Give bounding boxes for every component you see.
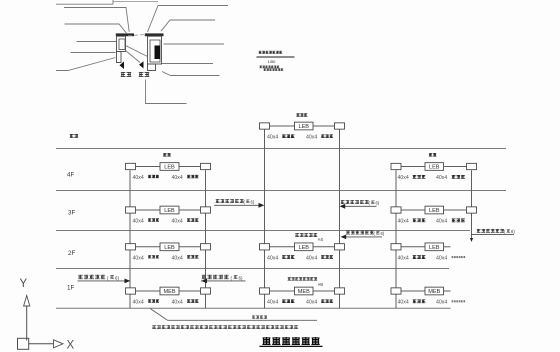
leader line 3F far-right underline xyxy=(472,234,515,236)
svg-text:6): 6) xyxy=(115,276,119,281)
detail: leader line right 3 xyxy=(164,43,225,45)
unit 2F-right LEB: terminal box left xyxy=(391,244,401,250)
svg-text:MEB: MEB xyxy=(163,289,175,295)
detail: cable tray line 2 between cabinets xyxy=(126,51,141,63)
unit 4F-left LEB: terminal box left xyxy=(126,163,136,169)
unit 1F-middle MEB: terminal box left xyxy=(260,288,270,294)
unit 1F-middle MEB: label galvanized flat steel left (du xin bian gang) xyxy=(282,299,294,302)
svg-text:2F: 2F xyxy=(68,250,75,257)
svg-text:LEB: LEB xyxy=(298,124,309,130)
detail: left cabinet body xyxy=(117,36,126,51)
floor line roof xyxy=(56,148,506,150)
detail: right cabinet dark busbar block xyxy=(155,46,161,60)
unit 2F-middle LEB: bonding box LEB xyxy=(295,243,314,251)
svg-text:40x4: 40x4 xyxy=(172,175,183,181)
ground floor line xyxy=(56,307,451,309)
unit roof-middle LEB: terminal box right xyxy=(335,123,345,129)
unit roof-middle LEB: label galvanized flat steel left (du xin bian gang) xyxy=(282,134,294,137)
unit 2F-middle LEB: label galvanized flat steel right xyxy=(321,255,333,258)
leader line 3F middle-right with arrow to riser x=339.5 xyxy=(341,205,377,207)
unit 2F-middle LEB: terminal box right xyxy=(335,244,345,250)
detail: dashed joint line between caps xyxy=(128,34,151,35)
unit roof-middle LEB: label galvanized flat steel right xyxy=(321,134,333,137)
unit 4F-left LEB: terminal box right xyxy=(201,163,211,169)
svg-text:6): 6) xyxy=(511,229,515,234)
label above roof LEB (dian ti ji fang) xyxy=(296,113,307,116)
detail: leader line 5 to left cabinet xyxy=(71,52,116,54)
detail: left cabinet inner panel xyxy=(119,39,125,50)
riser wire middle column A (x=264.5) xyxy=(264,129,266,308)
leader label 3F far-right: jie deng dian wei duan zi (jian 6) xyxy=(477,229,504,233)
bottom note text line xyxy=(152,325,298,329)
svg-text:40x4: 40x4 xyxy=(267,135,278,141)
svg-text:6): 6) xyxy=(376,201,380,206)
detail: leader line right 4 xyxy=(162,63,213,65)
detail: leader line 4 to left cabinet xyxy=(77,41,117,43)
leader label 3F middle-left: jie deng dian wei duan zi (jian 6) xyxy=(216,199,244,203)
unit 4F-right LEB: terminal box right xyxy=(467,163,477,169)
detail title note line 2 xyxy=(264,68,284,70)
leader label below 3F line: jie deng dian wei duan zi (jian 6) xyxy=(346,231,373,235)
svg-text:40x4: 40x4 xyxy=(306,256,317,262)
detail: leader line 6 bottom-left diagonal xyxy=(56,58,116,71)
label above 2F-middle LEB (jie deng dian wei duan zi) xyxy=(295,233,317,237)
unit 1F-right MEB: label galvanized flat steel left (du xin bian gang) xyxy=(413,299,426,303)
detail: leader line right 1 to right cabinet cap xyxy=(148,6,229,33)
leader label 1F right: fang lei jie di wang (jian 6) xyxy=(202,275,229,279)
unit 2F-right LEB: label galvanized flat steel right xyxy=(452,256,466,258)
unit 1F-middle MEB: bonding box MEB xyxy=(295,287,314,295)
unit 4F-left LEB: label galvanized flat steel left (du xin bian gang) xyxy=(148,175,159,178)
svg-text:LEB: LEB xyxy=(164,165,175,171)
unit 1F-middle MEB: wire terminal-left to box xyxy=(270,290,295,292)
riser wire middle column B (x=339.5) xyxy=(339,129,341,308)
unit 2F-left LEB: bonding box LEB xyxy=(160,243,179,251)
svg-text:LEB: LEB xyxy=(429,165,440,171)
unit 2F-middle LEB: wire box to terminal-right xyxy=(313,246,335,248)
detail: right cabinet body xyxy=(148,36,162,64)
svg-text:40x4: 40x4 xyxy=(306,300,317,306)
svg-text:40x4: 40x4 xyxy=(398,175,409,181)
riser wire right column A (x=396) xyxy=(395,170,397,308)
floor line 3F xyxy=(56,230,470,232)
svg-text:40x4: 40x4 xyxy=(398,300,409,306)
svg-text:40x4: 40x4 xyxy=(306,135,317,141)
detail: leader line 2 with diagonal to left cabinet cap xyxy=(64,8,129,32)
svg-text:40x4: 40x4 xyxy=(172,256,183,262)
unit 1F-right MEB: wire box to right (stub) xyxy=(444,290,451,292)
unit roof-middle LEB: bonding box LEB xyxy=(295,122,314,130)
unit 4F-left LEB: label galvanized flat steel right xyxy=(187,175,198,178)
unit 2F-left LEB: terminal box left xyxy=(126,244,136,250)
unit 3F-left LEB: terminal box left xyxy=(126,207,136,213)
unit 3F-right LEB: terminal box left xyxy=(391,207,401,213)
unit 2F-left LEB: label galvanized flat steel left (du xin bian gang) xyxy=(148,255,159,258)
unit 1F-middle MEB: terminal box right xyxy=(335,288,345,294)
floor label roof (ji fang) xyxy=(70,134,79,138)
svg-text:X: X xyxy=(67,340,75,352)
leader line 1F-right with arrow to riser x=205.5 xyxy=(201,280,246,282)
svg-text:6): 6) xyxy=(251,200,255,205)
leader label 1F left: fang lei jie di wang (jian 6) xyxy=(78,275,105,279)
detail: right cabinet cap (top plate) xyxy=(145,33,164,36)
unit 2F-right LEB: bonding box LEB xyxy=(425,243,444,251)
unit 4F-left LEB: wire box to terminal-right xyxy=(179,166,201,168)
svg-text:MEB: MEB xyxy=(428,289,440,295)
unit 1F-right MEB: wire terminal-left to box xyxy=(401,290,425,292)
detail: label strong-current (qiang dian) xyxy=(139,72,150,77)
leader line 3F middle-left with arrow to riser x=264.5 xyxy=(214,204,259,206)
floor line 2F xyxy=(56,268,449,270)
unit 3F-right LEB: label galvanized flat steel left (du xin bian gang) xyxy=(413,218,426,222)
svg-text:LEB: LEB xyxy=(164,208,175,214)
svg-text:40x4: 40x4 xyxy=(398,256,409,262)
unit 3F-right LEB: wire box to terminal-right xyxy=(444,209,467,211)
unit 3F-left LEB: label galvanized flat steel left (du xin bian gang) xyxy=(148,218,159,221)
unit 4F-left LEB: bonding box LEB xyxy=(160,163,179,171)
svg-text:3F: 3F xyxy=(68,209,75,216)
unit 2F-right LEB: wire box to right (stub) xyxy=(444,246,451,248)
unit 4F-left LEB: wire terminal-left to box xyxy=(136,166,161,168)
unit 4F-right LEB: bonding box LEB xyxy=(425,163,444,171)
drawing title: deng dian wei gan xian tu xyxy=(262,337,319,345)
unit 1F-right MEB: label galvanized flat steel right xyxy=(452,300,466,302)
detail: section flag strong-current xyxy=(139,61,144,68)
unit 1F-middle MEB: wire box to terminal-right xyxy=(313,290,335,292)
unit 1F-right MEB: bonding box MEB xyxy=(425,287,444,295)
leader label 3F middle-right: jie deng dian wei duan zi (jian 6) xyxy=(341,200,369,204)
unit 1F-left MEB: terminal box left xyxy=(126,288,136,294)
riser wire left column A (x=130) xyxy=(129,170,131,308)
drawing title underline xyxy=(260,345,323,347)
svg-text:40x4: 40x4 xyxy=(133,256,144,262)
unit 3F-right LEB: wire terminal-left to box xyxy=(401,209,425,211)
detail: top wall edge line xyxy=(113,1,158,3)
svg-text:40x4: 40x4 xyxy=(133,175,144,181)
unit 2F-middle LEB: terminal box left xyxy=(260,244,270,250)
unit 2F-left LEB: wire terminal-left to box xyxy=(136,246,161,248)
svg-text:MEB: MEB xyxy=(298,289,310,295)
unit 3F-left LEB: terminal box right xyxy=(201,207,211,213)
unit 3F-left LEB: wire terminal-left to box xyxy=(136,209,161,211)
svg-text:40x4: 40x4 xyxy=(267,300,278,306)
axis arrow right (open) xyxy=(54,340,64,348)
detail: cable tray line 1 between cabinets xyxy=(126,46,148,57)
label grounding device (jie di zhuang zhi) xyxy=(252,316,267,319)
unit 3F-left LEB: label galvanized flat steel right xyxy=(187,218,198,221)
label above 4F-right LEB (dian jing) xyxy=(429,153,437,156)
leader line 1F-left with arrow to riser x=130 xyxy=(78,280,126,282)
detail: right cabinet inner panel xyxy=(150,40,160,62)
svg-text:1F: 1F xyxy=(67,285,74,292)
detail: label weak-current (ruo dian) xyxy=(121,72,132,77)
unit 4F-right LEB: terminal box left xyxy=(391,163,401,169)
label above 4F-left LEB (dian jing) xyxy=(163,153,171,156)
axis arrow up (open) xyxy=(24,296,30,307)
svg-text:6): 6) xyxy=(239,276,243,281)
detail: left cabinet cap (top plate) xyxy=(116,33,134,36)
riser wire left column B (x=205.5) xyxy=(205,170,207,308)
svg-text:LEB: LEB xyxy=(429,208,440,214)
detail: left cabinet lower leg xyxy=(117,52,122,63)
unit roof-middle LEB: wire terminal-left to box xyxy=(270,125,295,127)
detail: leader line right 2 xyxy=(161,20,215,31)
svg-text:40x4: 40x4 xyxy=(398,219,409,225)
detail: leader line right 5 xyxy=(162,72,220,76)
unit 1F-left MEB: wire terminal-left to box xyxy=(136,290,161,292)
svg-text:40x4: 40x4 xyxy=(436,219,447,225)
unit 2F-middle LEB: wire terminal-left to box xyxy=(270,246,295,248)
svg-text:×8: ×8 xyxy=(318,282,324,288)
svg-text:40x4: 40x4 xyxy=(133,219,144,225)
unit roof-middle LEB: terminal box left xyxy=(260,123,270,129)
leader line below 3F with arrow to riser x=339.5 xyxy=(342,236,382,238)
unit 2F-right LEB: label galvanized flat steel left (du xin bian gang) xyxy=(413,255,426,259)
unit 3F-left LEB: wire box to terminal-right xyxy=(179,209,201,211)
detail: down leader L-shape below strong-current xyxy=(146,80,187,104)
axis origin square xyxy=(18,338,29,349)
unit 2F-left LEB: terminal box right xyxy=(201,244,211,250)
svg-text:40x4: 40x4 xyxy=(133,300,144,306)
svg-text:×4: ×4 xyxy=(318,237,324,243)
unit 3F-right LEB: bonding box LEB xyxy=(425,206,444,214)
detail: right cabinet foot xyxy=(148,64,156,71)
axis horizontal line xyxy=(29,343,54,345)
svg-text:LEB: LEB xyxy=(429,245,440,251)
svg-text:40x4: 40x4 xyxy=(436,300,447,306)
detail title underline xyxy=(257,56,295,58)
detail title: dian qi shu jing an zhuang xiang tu (bold) xyxy=(259,51,283,54)
unit 1F-right MEB: terminal box left xyxy=(391,288,401,294)
unit 2F-middle LEB: label galvanized flat steel left (du xin bian gang) xyxy=(282,255,294,258)
grounding leader diagonal from ground line xyxy=(150,308,168,320)
down arrow at bottom of riser x=471.5 xyxy=(470,238,473,242)
unit 1F-left MEB: label galvanized flat steel left (du xin bian gang) xyxy=(148,299,159,302)
svg-text:1/50: 1/50 xyxy=(268,59,277,64)
unit roof-middle LEB: wire box to terminal-right xyxy=(313,125,335,127)
unit 2F-left LEB: label galvanized flat steel right xyxy=(187,255,198,258)
detail: section flag weak-current xyxy=(120,62,125,70)
unit 4F-right LEB: label galvanized flat steel left (du xin bian gang) xyxy=(413,175,426,179)
svg-text:40x4: 40x4 xyxy=(172,300,183,306)
unit 1F-left MEB: label galvanized flat steel right xyxy=(187,299,198,302)
unit 3F-left LEB: bonding box LEB xyxy=(160,206,179,214)
unit 1F-left MEB: terminal box right xyxy=(201,288,211,294)
unit 1F-left MEB: bonding box MEB xyxy=(160,287,179,295)
detail: leader line 3 to left cabinet top xyxy=(65,24,127,33)
svg-text:40x4: 40x4 xyxy=(267,256,278,262)
unit 2F-right LEB: wire terminal-left to box xyxy=(401,246,425,248)
svg-text:4F: 4F xyxy=(67,171,74,178)
detail title note line 1 xyxy=(260,66,280,68)
riser wire right column B (x=471.5) xyxy=(471,170,473,239)
svg-text:40x4: 40x4 xyxy=(172,219,183,225)
detail: leader line top-left vertical xyxy=(112,0,114,4)
label above 1F-middle MEB (pump rooms) xyxy=(288,277,318,280)
svg-text:6): 6) xyxy=(381,231,385,236)
unit 1F-left MEB: wire box to terminal-right xyxy=(179,290,201,292)
grounding leader underline xyxy=(168,319,318,321)
unit 3F-right LEB: label galvanized flat steel right xyxy=(452,218,465,222)
unit 2F-left LEB: wire box to terminal-right xyxy=(179,246,201,248)
unit 1F-middle MEB: label galvanized flat steel right xyxy=(321,299,333,302)
svg-text:40x4: 40x4 xyxy=(436,175,447,181)
unit 3F-right LEB: terminal box right xyxy=(467,207,477,213)
svg-text:LEB: LEB xyxy=(298,245,309,251)
svg-text:LEB: LEB xyxy=(164,245,175,251)
unit 4F-right LEB: label galvanized flat steel right xyxy=(452,175,465,179)
svg-text:40x4: 40x4 xyxy=(436,256,447,262)
svg-text:Y: Y xyxy=(20,278,28,290)
axis vertical line xyxy=(26,306,28,341)
unit 4F-right LEB: wire box to terminal-right xyxy=(444,166,467,168)
floor line 4F xyxy=(56,190,506,192)
unit 4F-right LEB: wire terminal-left to box xyxy=(401,166,425,168)
